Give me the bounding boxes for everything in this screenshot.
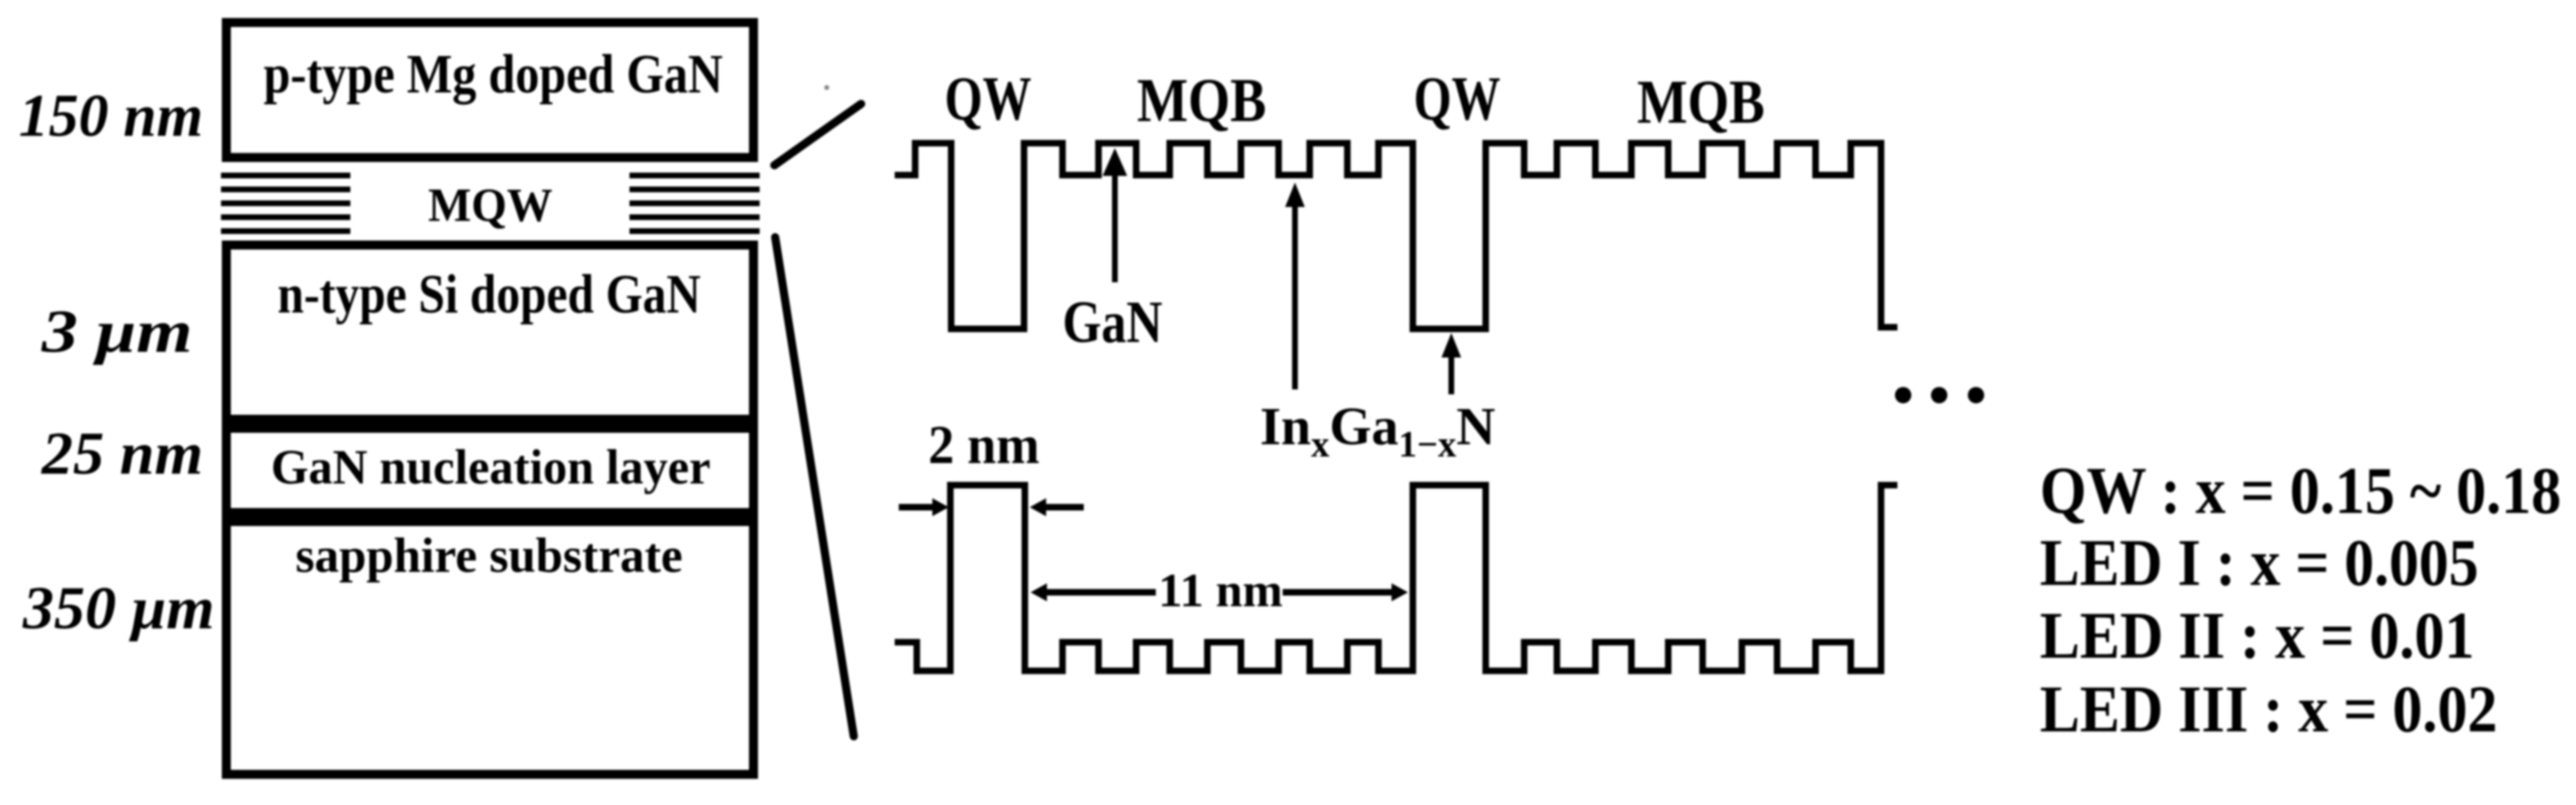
svg-text:GaN nucleation layer: GaN nucleation layer [271,440,711,494]
layer box GaN nucleation [227,429,754,513]
speck [824,85,829,90]
svg-text:3 μm: 3 μm [41,299,192,366]
svg-text:QW : x = 0.15 ~ 0.18: QW : x = 0.15 ~ 0.18 [2040,453,2561,528]
arrow GaN [1103,148,1127,176]
dim 2nm left arrow [899,504,936,510]
svg-text:LED III : x = 0.02: LED III : x = 0.02 [2040,672,2497,746]
svg-text:QW: QW [1414,65,1500,133]
arrow InGaN well [1441,333,1461,358]
svg-text:25 nm: 25 nm [41,420,203,488]
svg-text:LED II : x = 0.01: LED II : x = 0.01 [2040,598,2474,672]
layer box n-type GaN [227,245,754,420]
dim 2nm right arrow [1043,504,1084,510]
layer box sapphire substrate [227,522,754,775]
arrow InGaN barrier [1285,182,1305,207]
ellipsis dots [1895,387,1911,403]
layer box p-type GaN [227,23,754,158]
svg-text:GaN: GaN [1062,289,1162,355]
callout line lower [775,237,854,736]
svg-text:LED I : x = 0.005: LED I : x = 0.005 [2040,525,2479,600]
svg-text:sapphire substrate: sapphire substrate [295,528,683,582]
svg-text:150 nm: 150 nm [19,83,203,150]
callout line upper [774,104,861,165]
svg-text:MQW: MQW [428,178,553,232]
svg-text:n-type Si doped GaN: n-type Si doped GaN [277,263,701,325]
dim 11nm right arrow [1283,589,1395,596]
hatch MQW left group [221,173,350,234]
dim 11nm left arrow [1031,583,1047,601]
band profile top (conduction band) [895,143,1897,329]
svg-text:2 nm: 2 nm [928,415,1040,475]
svg-text:350 μm: 350 μm [22,575,214,642]
band profile bottom (valence band) [895,485,1897,671]
svg-text:InxGa1−xN: InxGa1−xN [1260,397,1496,465]
svg-text:MQB: MQB [1137,66,1266,135]
svg-text:MQB: MQB [1637,68,1765,137]
svg-text:11 nm: 11 nm [1158,564,1283,617]
hatch MQW right group [629,173,760,234]
svg-text:p-type Mg doped GaN: p-type Mg doped GaN [264,43,723,105]
svg-text:QW: QW [945,65,1031,133]
